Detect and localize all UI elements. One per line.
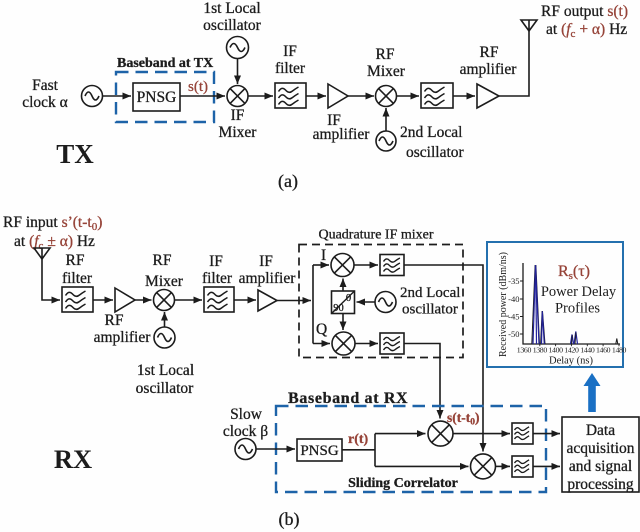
svg-text:(b): (b) xyxy=(279,509,300,530)
svg-text:filter: filter xyxy=(202,270,233,287)
mixer: sliding correlator mixer 1 xyxy=(428,421,453,446)
wire: RF filter to RF amplifier xyxy=(93,299,113,301)
amplifier: RF amplifier (RX) xyxy=(115,288,135,312)
svg-text:-40: -40 xyxy=(508,294,519,304)
wire: to Q mixer xyxy=(313,343,330,345)
wire: RF filter to RF amplifier xyxy=(453,95,475,97)
antenna: TX output antenna xyxy=(521,20,537,31)
svg-text:Power Delay: Power Delay xyxy=(541,284,617,300)
wire: 1st LO down into IF mixer xyxy=(237,59,239,85)
svg-text:Received power (dBm/ns): Received power (dBm/ns) xyxy=(498,252,509,357)
svg-text:filter: filter xyxy=(62,270,93,287)
svg-text:RX: RX xyxy=(54,444,92,474)
svg-text:(a): (a) xyxy=(278,171,298,192)
wire: upper branch to correlator mixer 1 xyxy=(375,433,426,435)
wire: PNSG to IF mixer xyxy=(180,95,225,97)
svg-text:amplifier: amplifier xyxy=(239,270,297,287)
svg-text:oscillator: oscillator xyxy=(203,17,262,34)
svg-text:at (fc + α) Hz: at (fc + α) Hz xyxy=(546,21,627,40)
wire: PNSG output split to two correlator mixers xyxy=(342,434,375,467)
antenna: RX input antenna xyxy=(34,248,50,259)
svg-text:Delay (ns): Delay (ns) xyxy=(549,356,594,367)
svg-text:Mixer: Mixer xyxy=(145,273,184,290)
plot: x tick labels xyxy=(517,346,627,355)
wire: phase splitter down to Q mixer xyxy=(342,314,344,331)
svg-text:oscillator: oscillator xyxy=(136,380,195,397)
wire: phase splitter up to I mixer xyxy=(342,279,344,292)
wire: Q mixer to Q filter xyxy=(355,343,378,345)
oscillator: 1st local oscillator (RX) xyxy=(154,327,175,348)
svg-text:Baseband at RX: Baseband at RX xyxy=(288,390,408,407)
svg-text:2nd Local: 2nd Local xyxy=(400,285,460,301)
svg-text:PNSG: PNSG xyxy=(300,443,339,459)
svg-text:-45: -45 xyxy=(508,312,519,322)
wire: RF amplifier to antenna xyxy=(499,30,529,96)
dashed box: Baseband at RX / sliding correlator xyxy=(276,406,546,492)
svg-text:PNSG: PNSG xyxy=(137,89,177,106)
svg-text:1st Local: 1st Local xyxy=(137,362,194,379)
svg-text:and signal: and signal xyxy=(569,458,632,475)
svg-text:at (fc ± α) Hz: at (fc ± α) Hz xyxy=(14,233,95,252)
svg-text:1st Local: 1st Local xyxy=(203,0,260,17)
mixer: RF mixer (RX) xyxy=(154,290,175,311)
svg-text:1440: 1440 xyxy=(580,346,595,355)
wire: filter 3 to data box xyxy=(533,433,560,435)
wire: filter 4 to data box xyxy=(533,465,560,467)
svg-text:RF: RF xyxy=(480,44,499,61)
wire: RF mixer to RF filter xyxy=(397,95,420,97)
oscillator: slow clock source xyxy=(235,439,256,460)
wire: I mixer to I filter xyxy=(354,264,378,266)
plot: axes xyxy=(523,263,620,344)
svg-text:1360: 1360 xyxy=(517,346,532,355)
svg-text:Slow: Slow xyxy=(230,406,263,423)
svg-text:0: 0 xyxy=(346,293,351,304)
block: Data acquisition and signal processing xyxy=(562,417,639,492)
svg-text:I: I xyxy=(321,247,326,264)
mixer: Q mixer xyxy=(332,332,355,355)
svg-text:filter: filter xyxy=(275,60,306,77)
wire: 1st LO up into RF mixer (RX) xyxy=(164,312,166,327)
wire: RF mixer to IF filter (RX) xyxy=(175,299,203,301)
svg-text:amplifier: amplifier xyxy=(313,126,371,143)
wire: IF amplifier into quadrature box xyxy=(277,300,311,302)
svg-text:1420: 1420 xyxy=(564,346,579,355)
svg-text:clock β: clock β xyxy=(223,423,268,440)
svg-text:s(t): s(t) xyxy=(188,79,208,95)
wire: antenna to RF filter xyxy=(42,259,60,300)
phase splitter: 0/90 block xyxy=(332,291,355,314)
block: PNSG (RX) xyxy=(297,439,342,461)
svg-text:IF: IF xyxy=(209,253,223,270)
filter: I lowpass filter xyxy=(380,255,404,276)
dashed box: Quadrature IF mixer xyxy=(299,245,463,358)
wire: IF filter to IF amplifier (RX) xyxy=(234,299,256,301)
svg-text:clock α: clock α xyxy=(22,94,68,111)
oscillator: 1st local oscillator TX xyxy=(227,37,249,59)
wire: RF amplifier to RF mixer xyxy=(135,299,152,301)
filter: RF filter (RX) xyxy=(62,287,93,312)
svg-text:IF: IF xyxy=(231,107,245,124)
wire: IF amplifier to RF mixer xyxy=(348,95,374,97)
wire: Q filter output, right then down to correlator mixer 1 xyxy=(404,344,440,419)
wire: to I mixer xyxy=(313,264,329,266)
svg-text:RF: RF xyxy=(105,312,124,329)
oscillator: fast clock source xyxy=(82,86,103,107)
svg-text:oscillator: oscillator xyxy=(402,302,458,318)
arrow: thick blue arrow from data box to plot xyxy=(584,373,601,412)
svg-text:RF: RF xyxy=(153,252,172,269)
svg-text:s(t-t0): s(t-t0) xyxy=(447,410,480,428)
svg-text:-50: -50 xyxy=(508,329,519,339)
svg-text:Baseband at TX: Baseband at TX xyxy=(117,56,213,71)
block: PNSG (TX) xyxy=(133,83,180,111)
svg-text:1380: 1380 xyxy=(533,346,548,355)
svg-text:amplifier: amplifier xyxy=(460,61,518,78)
svg-text:acquisition: acquisition xyxy=(566,440,634,457)
filter: IF filter (TX) xyxy=(275,83,306,108)
svg-text:IF: IF xyxy=(259,253,273,270)
wire: IF filter to IF amplifier xyxy=(306,95,326,97)
dashed box: Baseband at TX xyxy=(116,72,214,122)
plot: y tick labels xyxy=(508,276,519,339)
box: power delay profile plot xyxy=(487,242,623,367)
svg-text:Quadrature IF mixer: Quadrature IF mixer xyxy=(318,228,433,243)
svg-text:Profiles: Profiles xyxy=(555,301,600,317)
filter: Q lowpass filter xyxy=(380,333,404,354)
svg-text:Mixer: Mixer xyxy=(367,63,406,80)
svg-text:1400: 1400 xyxy=(548,346,563,355)
svg-text:1480: 1480 xyxy=(612,346,627,355)
wire: slow clock to PNSG (RX) xyxy=(256,448,295,450)
oscillator: 2nd local oscillator (RX) xyxy=(375,292,396,313)
wire: IF mixer to IF filter xyxy=(248,95,273,97)
wire: fast clock to PNSG xyxy=(103,95,132,97)
svg-text:RF output s(t): RF output s(t) xyxy=(541,3,628,20)
svg-text:90: 90 xyxy=(333,303,344,314)
svg-text:Mixer: Mixer xyxy=(219,124,258,141)
svg-text:2nd Local: 2nd Local xyxy=(400,124,462,141)
wire: I filter output, right then down to correlator mixer 2 xyxy=(404,265,483,452)
mixer: RF mixer (TX) xyxy=(376,86,397,107)
svg-text:Q: Q xyxy=(316,321,327,338)
svg-text:RF: RF xyxy=(66,252,85,269)
svg-text:Fast: Fast xyxy=(32,77,59,94)
plot: multipath spikes xyxy=(532,265,618,344)
filter: IF filter (RX) xyxy=(204,287,234,312)
svg-text:-35: -35 xyxy=(508,276,519,286)
wire: mixer 2 to filter 4 xyxy=(496,465,511,467)
filter: post-correlator filter 1 xyxy=(512,423,533,444)
svg-text:1460: 1460 xyxy=(596,346,611,355)
svg-text:oscillator: oscillator xyxy=(406,144,465,161)
mixer: sliding correlator mixer 2 xyxy=(471,454,496,479)
svg-text:amplifier: amplifier xyxy=(94,329,152,346)
svg-text:IF: IF xyxy=(283,43,297,60)
svg-text:Rs(τ): Rs(τ) xyxy=(558,263,590,282)
wire: mixer 1 to filter 3 xyxy=(453,433,510,435)
svg-text:r(t): r(t) xyxy=(348,432,369,447)
oscillator: 2nd local oscillator (TX) xyxy=(376,131,396,151)
wire: 2nd LO to phase splitter xyxy=(357,301,376,303)
svg-text:processing: processing xyxy=(567,476,634,493)
mixer: I mixer xyxy=(331,254,354,277)
svg-text:RF: RF xyxy=(376,46,395,63)
amplifier: IF amplifier (TX) xyxy=(328,84,348,108)
mixer: IF mixer (TX) xyxy=(227,86,248,107)
amplifier: RF amplifier (TX) xyxy=(477,84,499,108)
svg-text:Data: Data xyxy=(586,422,615,439)
wire: lower branch to correlator mixer 2 xyxy=(375,465,469,467)
svg-text:RF input s’(t-t0): RF input s’(t-t0) xyxy=(3,214,102,233)
wire: 2nd LO up into RF mixer xyxy=(385,108,387,131)
amplifier: IF amplifier (RX) xyxy=(258,290,277,311)
wire: vertical split inside quadrature box xyxy=(312,265,314,344)
filter: RF filter (TX, unlabeled) xyxy=(421,83,453,108)
svg-text:Sliding Correlator: Sliding Correlator xyxy=(348,476,458,491)
filter: post-correlator filter 2 xyxy=(512,456,533,477)
svg-text:TX: TX xyxy=(56,139,94,169)
